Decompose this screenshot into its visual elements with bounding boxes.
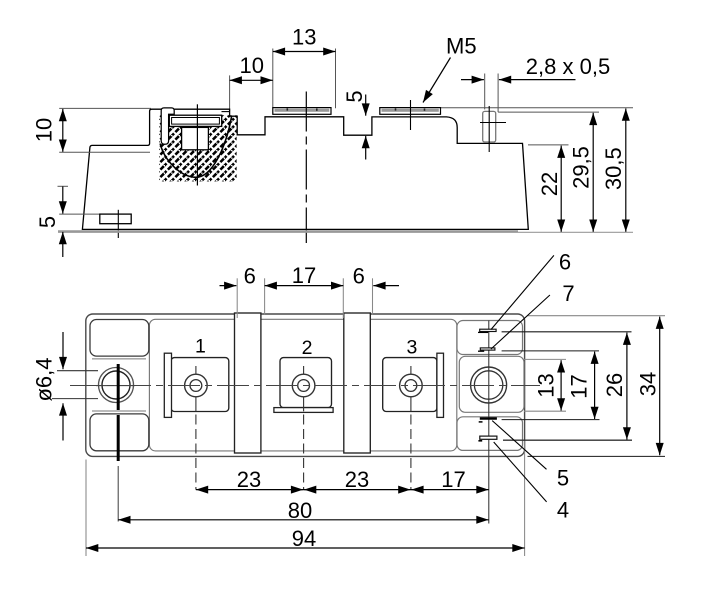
svg-text:3: 3 <box>406 336 417 358</box>
svg-text:1: 1 <box>195 335 206 357</box>
svg-text:5: 5 <box>342 90 367 102</box>
svg-text:10: 10 <box>240 53 264 78</box>
svg-text:2,8 x 0,5: 2,8 x 0,5 <box>526 54 610 79</box>
svg-text:80: 80 <box>288 498 312 523</box>
svg-text:6: 6 <box>244 264 256 289</box>
svg-text:17: 17 <box>441 467 465 492</box>
svg-text:4: 4 <box>557 498 569 523</box>
svg-text:13: 13 <box>292 25 316 50</box>
svg-text:94: 94 <box>292 526 316 551</box>
svg-text:22: 22 <box>537 172 562 196</box>
svg-text:17: 17 <box>292 263 316 288</box>
svg-text:2: 2 <box>302 337 313 359</box>
svg-text:6: 6 <box>559 250 571 275</box>
svg-text:5: 5 <box>35 216 60 228</box>
svg-text:5: 5 <box>557 466 569 491</box>
svg-text:34: 34 <box>636 372 661 396</box>
svg-text:17: 17 <box>567 374 592 398</box>
svg-text:26: 26 <box>602 373 627 397</box>
svg-text:13: 13 <box>534 373 559 397</box>
svg-text:23: 23 <box>345 467 369 492</box>
svg-text:ø6,4: ø6,4 <box>32 357 57 401</box>
svg-text:29,5: 29,5 <box>569 146 594 189</box>
svg-text:M5: M5 <box>446 34 477 59</box>
svg-text:7: 7 <box>562 281 574 306</box>
svg-text:10: 10 <box>32 118 57 142</box>
svg-text:23: 23 <box>237 467 261 492</box>
svg-text:6: 6 <box>353 264 365 289</box>
svg-text:30,5: 30,5 <box>601 147 626 190</box>
